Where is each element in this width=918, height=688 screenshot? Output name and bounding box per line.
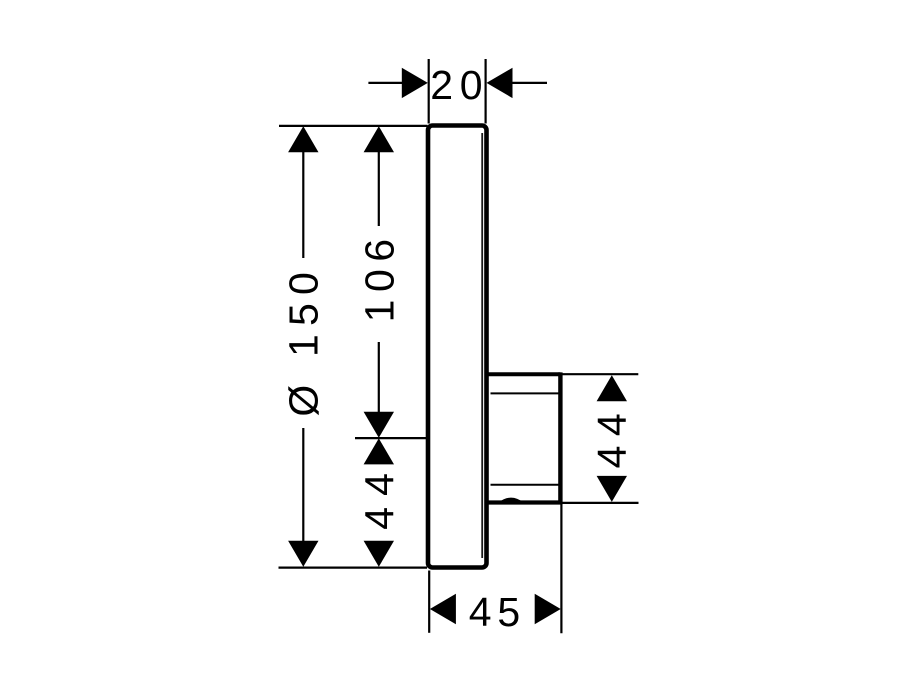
valve body top edge bbox=[487, 372, 560, 376]
dimension 20: left tail bbox=[368, 82, 402, 84]
dimension O150: bottom extension line bbox=[279, 566, 428, 568]
dimension O150: top extension line bbox=[279, 125, 428, 127]
dimension 20: right arrow bbox=[487, 68, 513, 98]
dimension 45: label bbox=[469, 589, 526, 635]
valve body right edge bbox=[558, 372, 562, 504]
dimension O150: label bbox=[281, 264, 327, 417]
dimension 45: right arrow bbox=[535, 594, 561, 624]
valve body bottom edge bbox=[487, 498, 563, 503]
dimension 106: bottom arrow bbox=[364, 412, 394, 438]
svg-text:20: 20 bbox=[430, 62, 489, 108]
plate inner face line bbox=[481, 133, 483, 558]
dimension 44 left: bottom arrow bbox=[364, 541, 394, 567]
dimension 106: lower stem bbox=[378, 342, 380, 413]
dimension 44 right: top arrow bbox=[597, 375, 627, 401]
dimension O150: lower stem bbox=[302, 428, 304, 542]
dimension 20: right tail bbox=[512, 82, 547, 84]
body center line bbox=[355, 437, 427, 439]
dimension 20: left extension line bbox=[428, 59, 430, 124]
dimension 44 right: bottom arrow bbox=[597, 476, 627, 502]
dimension 20: left arrow bbox=[402, 68, 428, 98]
dimension 44 right: top extension line bbox=[562, 373, 638, 375]
dimension 106: label bbox=[357, 231, 403, 322]
dimension 20: right extension line bbox=[485, 59, 487, 124]
svg-text:44: 44 bbox=[357, 462, 403, 530]
dimension 44 left: label bbox=[357, 462, 403, 530]
plate outline bbox=[428, 126, 487, 568]
svg-text:44: 44 bbox=[589, 404, 635, 469]
svg-text:Ø 150: Ø 150 bbox=[281, 264, 327, 417]
dimension 45: left arrow bbox=[430, 594, 456, 624]
dimension 45: right extension line bbox=[560, 505, 562, 634]
dimension 44 right: label bbox=[589, 404, 635, 469]
dimension 44 left: top arrow bbox=[364, 438, 394, 464]
dimension 20: label bbox=[430, 62, 489, 108]
svg-text:106: 106 bbox=[357, 231, 403, 322]
dimension O150: top arrow bbox=[288, 126, 318, 152]
valve body inner bottom line bbox=[491, 484, 559, 486]
dimension 45: left extension line bbox=[428, 571, 430, 633]
dimension O150: upper stem bbox=[302, 152, 304, 259]
dimension O150: bottom arrow bbox=[288, 541, 318, 567]
dimension 44 right: bottom extension line bbox=[562, 502, 639, 504]
svg-text:45: 45 bbox=[469, 589, 526, 635]
dimension 106: top arrow bbox=[364, 126, 394, 152]
valve body inner top line bbox=[491, 392, 559, 394]
dimension 106: upper stem bbox=[378, 152, 380, 227]
